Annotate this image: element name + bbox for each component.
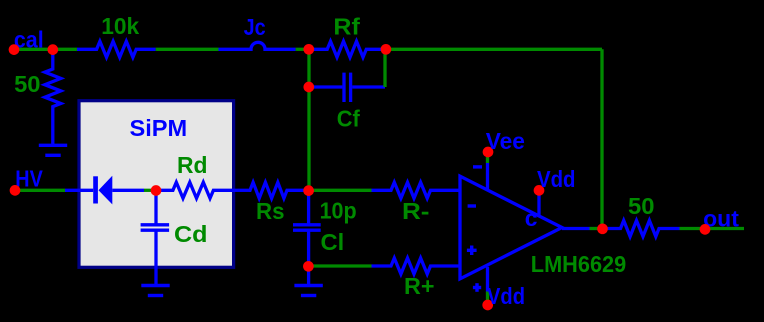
svg-text:c: c — [525, 205, 538, 231]
ground (cal 50) — [39, 144, 67, 147]
svg-text:Rs: Rs — [256, 198, 285, 224]
op-amp inverting input marker — [468, 204, 476, 207]
wire op-amp output — [562, 227, 590, 230]
svg-text:Cf: Cf — [337, 106, 360, 132]
svg-text:SiPM: SiPM — [130, 115, 188, 141]
svg-text:Vdd: Vdd — [487, 283, 525, 309]
op-amp non-inverting input marker — [467, 249, 477, 252]
junction: diode/Rd/Cd — [151, 185, 162, 196]
node Vdd (top) — [534, 185, 545, 196]
pin Vee (top) — [486, 163, 489, 190]
resistor Rd — [156, 182, 235, 198]
wire Rd to Rs — [235, 189, 249, 192]
capacitor Cd — [154, 190, 157, 225]
svg-text:Rf: Rf — [333, 14, 360, 40]
wire node to R- — [309, 189, 372, 192]
svg-text:HV: HV — [15, 165, 43, 191]
svg-text:R+: R+ — [404, 273, 435, 299]
svg-text:50: 50 — [628, 193, 655, 219]
op-amp U1 LMH6629 — [460, 176, 562, 279]
capacitor Cl 10p — [307, 190, 310, 225]
resistor Rs — [249, 182, 309, 198]
junction: node A (Jc/Rf) — [303, 44, 314, 55]
svg-text:Cd: Cd — [174, 221, 208, 247]
resistor 50 (output) — [603, 221, 680, 237]
junction: inverting node — [303, 185, 314, 196]
resistor 50 (cal termination) — [45, 49, 61, 145]
svg-text:Rd: Rd — [177, 152, 208, 178]
wire feedback vertical — [600, 49, 603, 228]
resistor R+ — [372, 258, 462, 274]
svg-text:Cl: Cl — [321, 229, 345, 255]
wire diode to node D — [144, 189, 156, 192]
junction: HV node — [10, 185, 21, 196]
junction: cal/50 — [47, 44, 58, 55]
junction: out node — [700, 224, 711, 235]
svg-text:10p: 10p — [320, 198, 357, 224]
junction: Rf/feedback — [381, 44, 392, 55]
svg-text:Vee: Vee — [486, 128, 525, 154]
diode D (SiPM cell) — [65, 189, 93, 192]
svg-text:Jc: Jc — [244, 14, 266, 40]
junction: output/feedback — [597, 223, 608, 234]
pin c (compensation, Vdd) — [537, 191, 540, 216]
junction: cal node — [9, 44, 20, 55]
wire node A down to inverting node — [307, 49, 310, 190]
junction: Cl/R+ — [303, 261, 314, 272]
svg-text:Vdd: Vdd — [537, 166, 576, 192]
svg-text:10k: 10k — [101, 13, 139, 39]
wire HV — [15, 189, 65, 192]
jumper Jc — [219, 42, 296, 49]
junction: Cf left — [303, 82, 314, 93]
svg-text:R-: R- — [402, 198, 430, 224]
resistor Rf — [309, 41, 386, 57]
resistor R 10k — [77, 41, 156, 57]
wire Rf output to feedback corner — [386, 48, 602, 51]
ground (Cd) — [141, 284, 169, 287]
svg-text:LMH6629: LMH6629 — [531, 251, 626, 277]
wire 10k to Jc — [156, 48, 219, 51]
node Vdd (bottom) — [482, 300, 493, 311]
wire Cl node to R+ — [309, 264, 372, 267]
svg-text:50: 50 — [14, 71, 40, 97]
pin Vdd (bottom) — [486, 267, 489, 292]
wire Jc to node A — [296, 48, 309, 51]
SiPM component box — [79, 101, 234, 268]
resistor R- — [372, 182, 462, 198]
wire cal to junction — [14, 48, 77, 51]
wire output to out — [680, 227, 745, 230]
node Vee — [483, 147, 494, 158]
ground (Cl) — [307, 266, 310, 286]
capacitor Cf — [309, 85, 342, 88]
